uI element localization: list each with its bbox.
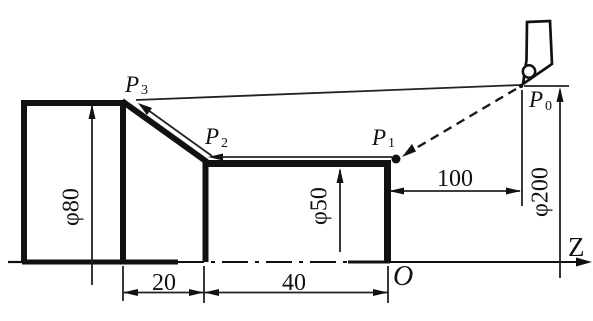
40 left arrowhead	[204, 289, 219, 296]
workpiece bottom edge on axis	[22, 260, 178, 265]
phi80 top arrowhead	[89, 104, 96, 119]
taper edge P3 to P2	[122, 101, 207, 162]
workpiece right face	[384, 161, 391, 262]
svg-text:P: P	[371, 125, 386, 150]
40 right arrowhead	[373, 289, 388, 296]
phi50 dimension line	[339, 170, 341, 252]
toolpath line P1 to P2	[212, 156, 392, 158]
rapid dashed line P0 to P1	[406, 89, 516, 154]
40 dimension line	[204, 292, 388, 294]
svg-text:3: 3	[141, 83, 148, 98]
svg-text:P: P	[528, 87, 543, 112]
tool nose circle	[523, 65, 535, 77]
20 right arrowhead	[189, 289, 204, 296]
extension line below x=388	[387, 266, 389, 303]
step face at x=206	[203, 160, 209, 262]
100 right arrowhead	[506, 188, 521, 195]
right face of phi80 section	[120, 100, 126, 262]
svg-text:0: 0	[545, 99, 552, 114]
node P0 dot	[519, 84, 523, 88]
phi80 dimension line	[91, 106, 93, 285]
phi200 top arrowhead	[557, 87, 564, 102]
Z axis arrowhead	[576, 258, 592, 267]
extension line below P0	[521, 90, 523, 206]
svg-text:Z: Z	[568, 232, 585, 262]
svg-text:φ80: φ80	[59, 188, 85, 226]
phi200 dimension line	[559, 90, 561, 278]
svg-text:40: 40	[282, 270, 306, 296]
arrowhead at P3	[138, 103, 152, 115]
node P1 dot	[392, 155, 401, 164]
centerline dash-dot	[178, 261, 348, 263]
top extension line right of P0	[524, 85, 569, 87]
Z axis line	[390, 261, 584, 263]
svg-text:100: 100	[437, 166, 473, 192]
toolpath return line P3 to P0	[136, 85, 521, 100]
centerline left stub	[8, 261, 22, 263]
extension line below x=204	[203, 266, 205, 303]
svg-text:1: 1	[388, 136, 395, 151]
100 dimension line	[390, 190, 520, 192]
toolpath line P2 to P3 along taper	[141, 105, 212, 156]
svg-text:O: O	[393, 261, 413, 292]
20 dimension line	[123, 292, 204, 294]
axis solid segment	[348, 261, 390, 264]
extension line below x=123	[122, 266, 124, 301]
tool body	[523, 21, 552, 84]
svg-text:P: P	[204, 124, 219, 149]
svg-text:P: P	[124, 72, 139, 97]
svg-text:20: 20	[152, 270, 176, 296]
20 left arrowhead	[123, 289, 138, 296]
workpiece big-diameter section (phi80) outline	[24, 103, 126, 262]
arrowhead at P2	[208, 154, 223, 161]
100 left arrowhead	[389, 188, 404, 195]
phi50 top arrowhead	[337, 168, 344, 183]
svg-text:φ50: φ50	[307, 187, 333, 225]
phi50 top edge P2 to P1	[203, 160, 391, 167]
svg-text:2: 2	[221, 136, 228, 151]
arrowhead at P1	[402, 144, 416, 157]
svg-text:φ200: φ200	[528, 167, 554, 217]
